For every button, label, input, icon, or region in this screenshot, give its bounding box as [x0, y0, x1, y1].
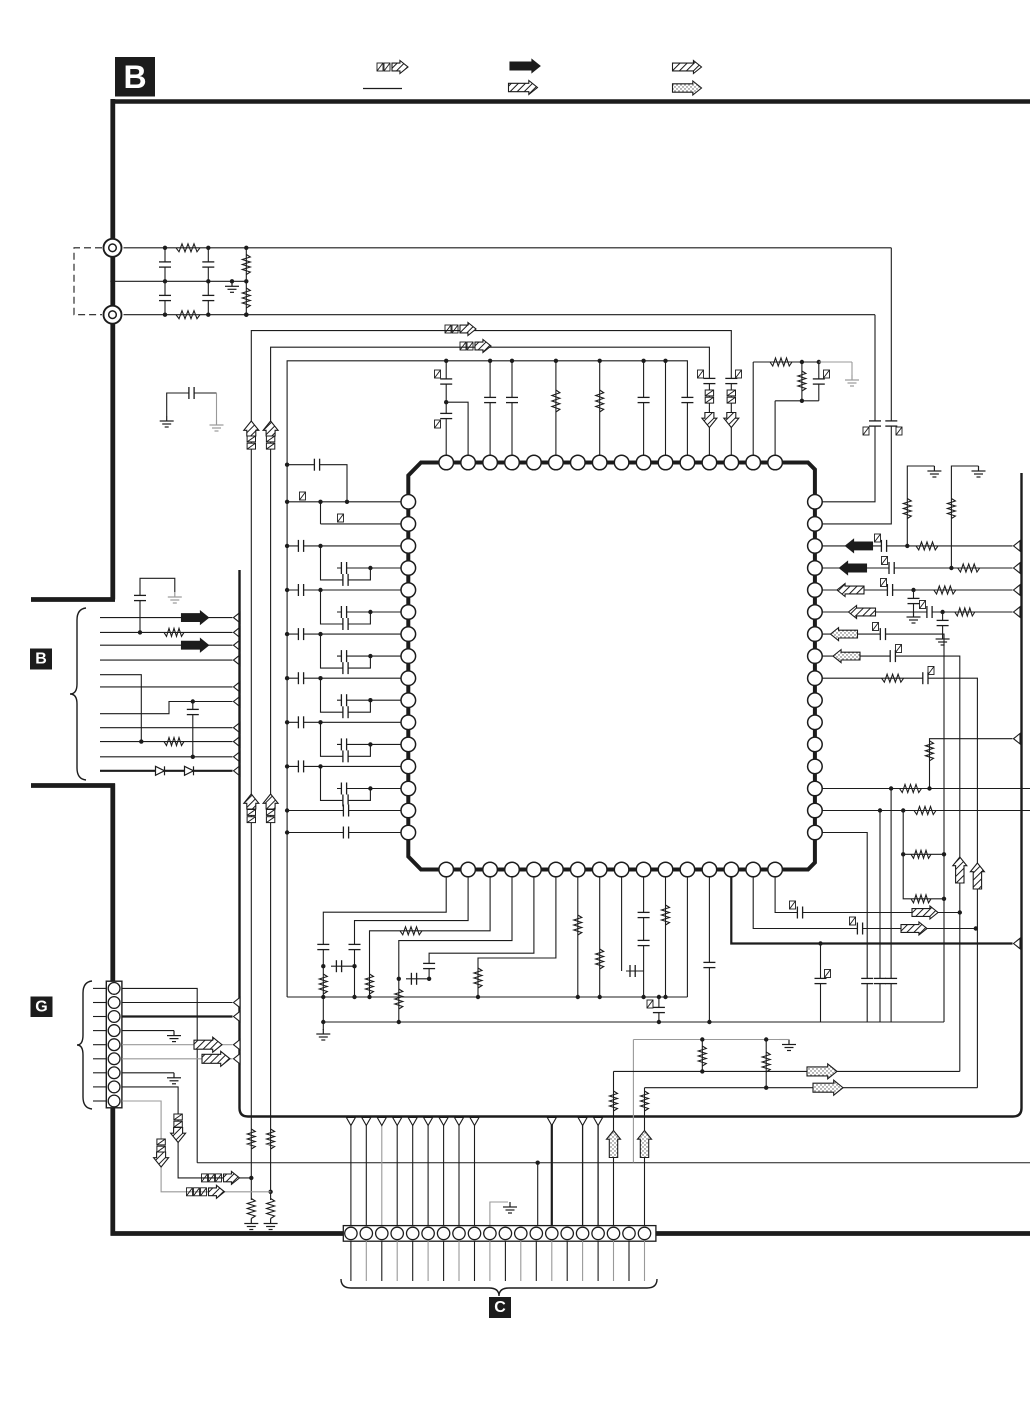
dots signal arrow up: [638, 1131, 652, 1158]
junction J49: [138, 630, 142, 634]
value label: [647, 1000, 653, 1008]
wire cap link b9-b10: [626, 970, 644, 972]
resistor R15: [610, 1091, 618, 1111]
wire cap-ground: [140, 578, 175, 632]
capacitor C64: [857, 923, 862, 935]
IC U1 top pin 10: [636, 455, 651, 470]
capacitor C26: [341, 650, 346, 662]
page border notch upper: [31, 597, 115, 602]
junction J76: [576, 995, 580, 999]
wire G9 gray: [122, 1101, 271, 1192]
capacitor C3: [202, 262, 214, 267]
solid signal arrow left: [846, 539, 873, 552]
connector C pin 9: [468, 1227, 480, 1239]
wire G stub: [93, 1030, 106, 1032]
capacitor C63: [797, 907, 802, 919]
wire right pin14: [822, 788, 1030, 790]
dots signal arrow left: [833, 650, 860, 663]
junction J8: [244, 246, 248, 250]
capacitor C54: [336, 960, 341, 972]
capacitor C9: [506, 397, 518, 402]
wire res drop 2: [765, 1040, 767, 1088]
junction J24: [800, 399, 804, 403]
wire net B: [645, 1087, 978, 1089]
resistor R6: [247, 1199, 255, 1219]
wire connector tail 17: [597, 1241, 599, 1281]
junction J9: [244, 279, 248, 283]
wire resistor link: [245, 248, 247, 315]
bus entry arrowhead: [234, 1011, 241, 1021]
ground: [927, 466, 941, 477]
junction J86: [764, 1037, 768, 1041]
capacitor C33: [298, 760, 303, 772]
hatch signal arrow up: [263, 794, 278, 809]
section label B (left): [30, 649, 52, 670]
junction J40: [368, 698, 372, 702]
capacitor C36: [343, 805, 348, 817]
capacitor C47: [890, 650, 895, 662]
wire bus to connector pin 5: [412, 1118, 414, 1226]
junction J20: [663, 359, 667, 363]
wire bottom pin6 net: [478, 877, 556, 997]
wire input bottom: [124, 314, 876, 316]
bus entry arrowhead: [234, 766, 241, 776]
capacitor C18: [298, 540, 303, 552]
wire bus to connector pin 4: [396, 1118, 398, 1226]
wire to IC top pin: [599, 361, 601, 456]
capacitor C24: [298, 628, 303, 640]
junction J77: [598, 995, 602, 999]
connector C body: [343, 1226, 656, 1242]
bus tap arrowhead: [393, 1118, 402, 1126]
bus entry arrowhead: [1014, 607, 1021, 617]
svg-text:C: C: [494, 1299, 506, 1316]
connector G pin 2: [108, 997, 120, 1009]
junction J18: [598, 359, 602, 363]
wire cap loop: [321, 546, 371, 580]
ground: [782, 1040, 796, 1051]
capacitor C19: [343, 574, 348, 586]
IC U1 top pin 14: [724, 455, 739, 470]
resistor R27: [911, 895, 931, 903]
IC U1 right pin 6: [808, 605, 823, 620]
page border bottom right: [655, 1231, 1030, 1236]
connector jack J2: [104, 306, 122, 324]
IC U1 right pin 9: [808, 671, 823, 686]
IC U1 bottom pin 9: [614, 862, 629, 877]
junction J7: [206, 313, 210, 317]
wire bottom pin15 net: [753, 877, 976, 929]
wire r15 drop: [879, 811, 881, 1023]
value label: [460, 342, 473, 350]
connector G pin 3: [108, 1011, 120, 1023]
diode D2: [185, 766, 194, 775]
junction J56: [911, 588, 915, 592]
wire cap loop: [321, 722, 371, 756]
connector C pin 16: [576, 1227, 588, 1239]
bus tap arrowhead: [362, 1118, 371, 1126]
resistor R17: [916, 542, 938, 550]
resistor R1: [176, 244, 200, 252]
wire resistor drop: [801, 362, 803, 401]
resistor R23: [882, 674, 904, 682]
wire bottom pin7 net: [577, 877, 579, 997]
connector G pin 5: [108, 1039, 120, 1051]
resistor R35: [596, 949, 604, 969]
resistor R33: [474, 968, 482, 988]
bus entry arrowhead: [234, 997, 241, 1007]
capacitor C34: [343, 794, 348, 806]
net label: [705, 390, 713, 403]
junction J45: [318, 764, 322, 768]
junction J69: [352, 964, 356, 968]
value label: [850, 917, 856, 925]
capacitor C40: [881, 540, 886, 552]
wire pin16 up: [774, 401, 776, 456]
wire to left pin 6: [337, 611, 401, 613]
bus entry arrowhead: [234, 640, 241, 650]
bus main loop: [240, 473, 1022, 1117]
junction J72: [397, 977, 401, 981]
bus entry arrowhead: [234, 612, 241, 622]
wire gray to ground: [819, 361, 852, 363]
junction J58: [942, 897, 946, 901]
wire cap loop: [321, 634, 371, 668]
wire G3 bold: [122, 1015, 233, 1017]
IC U1 bottom pin 16: [768, 862, 783, 877]
bus tap arrowhead: [594, 1118, 603, 1126]
wire bottom pin11 net: [665, 877, 667, 997]
wire right pin7 long: [822, 634, 944, 1022]
IC U1 top pin 11: [658, 455, 673, 470]
IC U1 bottom pin 15: [746, 862, 761, 877]
resistor R16: [641, 1091, 649, 1111]
bus tap arrowhead: [377, 1118, 386, 1126]
dots signal arrow right: [807, 1064, 837, 1079]
wire B signal: [100, 631, 233, 633]
connector C pin 2: [360, 1227, 372, 1239]
IC U1 bottom pin 12: [680, 862, 695, 877]
wire bottom pin16 net: [775, 877, 960, 913]
wire topright: [753, 361, 819, 363]
junction J15: [488, 359, 492, 363]
value label: [300, 492, 306, 500]
bus entry arrowhead: [1014, 585, 1021, 595]
bus entry arrowhead: [1014, 541, 1021, 551]
IC U1 left pin 16: [401, 825, 416, 840]
resistor R20: [947, 499, 955, 519]
connector C pin 19: [623, 1227, 635, 1239]
wire to left pin 16: [287, 832, 401, 834]
junction J65: [818, 941, 822, 945]
junction J3: [163, 279, 167, 283]
value label: [873, 623, 879, 631]
IC U1 right pin 3: [808, 539, 823, 554]
junction J33: [318, 588, 322, 592]
wire cap hang: [192, 702, 194, 757]
junction J46: [368, 786, 372, 790]
capacitor C16: [885, 421, 897, 426]
IC U1 right pin 13: [808, 759, 823, 774]
junction J66: [321, 964, 325, 968]
capacitor C20: [341, 562, 346, 574]
wire connector tail 13: [535, 1241, 537, 1281]
wire cap drop collectors: [658, 997, 660, 1022]
wire bold data net: [731, 877, 1012, 944]
resistor R21: [934, 586, 956, 594]
wire branch to pin2: [446, 402, 468, 456]
junction J80: [657, 995, 661, 999]
connector C pin 17: [592, 1227, 604, 1239]
hatch signal arrow down: [154, 1152, 169, 1167]
wire to left pin 15: [287, 810, 401, 812]
diode D1: [156, 766, 165, 775]
wire r5 cap drop: [913, 590, 915, 612]
wire G stub: [93, 1058, 106, 1060]
IC U1 top pin 15: [746, 455, 761, 470]
hatch signal arrow up: [953, 857, 967, 883]
legend underline: [363, 88, 402, 90]
IC U1 top pin 9: [614, 455, 629, 470]
junction J59: [889, 786, 893, 790]
wire bus to connector pin 17: [597, 1118, 599, 1226]
capacitor C7: [703, 378, 715, 383]
capacitor C1: [159, 262, 171, 267]
capacitor C32: [341, 738, 346, 750]
junction J48: [285, 830, 289, 834]
ground: [503, 1202, 517, 1213]
junction J74: [427, 977, 431, 981]
bus entry arrowhead: [234, 1054, 241, 1064]
resistor R25: [926, 741, 934, 761]
junction J34: [368, 610, 372, 614]
section label G: [31, 997, 53, 1018]
wire connector tail 20: [644, 1241, 646, 1281]
wire bold to connector pin 14: [551, 1118, 553, 1226]
junction J62: [901, 808, 905, 812]
wire G8: [122, 1087, 251, 1178]
IC U1 bottom pin 4: [505, 862, 520, 877]
bus entry arrowhead: [234, 655, 241, 665]
wire connector tail 11: [504, 1241, 506, 1281]
junction J21: [444, 400, 448, 404]
IC U1 top pin 7: [571, 455, 586, 470]
wire r4 pullup: [951, 466, 978, 568]
hatch signal arrow up: [263, 421, 278, 436]
resistor R10: [596, 390, 604, 412]
wire r14 drop: [890, 789, 892, 1023]
capacitor C57: [423, 963, 435, 968]
resistor R14: [164, 738, 184, 746]
wire to left pin 10: [337, 699, 401, 701]
page border bottom left: [111, 1231, 345, 1236]
capacitor C22: [343, 618, 348, 630]
wire rail B loop: [271, 347, 710, 1200]
wire to left pin 4: [337, 567, 401, 569]
capacitor C30: [298, 716, 303, 728]
ground: [316, 1029, 330, 1040]
resistor R19: [958, 564, 980, 572]
page border top: [113, 99, 1030, 104]
wire gray lower: [633, 1039, 779, 1041]
hatch signal arrow left: [837, 584, 864, 597]
resistor R2: [176, 311, 200, 319]
capacitor C50: [874, 978, 886, 983]
brace G section: [77, 981, 92, 1109]
wire pin15 up: [752, 362, 754, 456]
input bracket: [74, 248, 102, 315]
IC U1 bottom pin 13: [702, 862, 717, 877]
junction J4: [163, 313, 167, 317]
wire bottom pin2 net: [355, 877, 469, 997]
junction J63: [901, 852, 905, 856]
resistor R29: [319, 974, 327, 994]
wire connector tail 3: [381, 1241, 383, 1281]
value label: [698, 370, 704, 378]
wire to left pin 8: [337, 655, 401, 657]
wire cap link b4-b5: [406, 978, 429, 980]
junction J28: [318, 500, 322, 504]
wire right pin3: [822, 545, 1012, 547]
connector C pin 3: [376, 1227, 388, 1239]
IC U1 right pin 2: [808, 517, 823, 532]
wire rail C loop: [287, 361, 687, 990]
wire bus to connector pin 6: [427, 1118, 429, 1226]
resistor R5: [247, 1129, 255, 1149]
wire G stub: [93, 1002, 106, 1004]
wire right pin9 long: [822, 678, 977, 1087]
connector C pin 11: [499, 1227, 511, 1239]
IC U1 top pin 1: [439, 455, 454, 470]
resistor R24: [900, 785, 922, 793]
IC U1 top pin 2: [461, 455, 476, 470]
junction J64: [942, 852, 946, 856]
wire to left pin 7: [287, 633, 401, 635]
wire bottom pin8 net: [599, 877, 601, 997]
connector G pin 8: [108, 1081, 120, 1093]
wire B signal: [100, 756, 233, 758]
bus entry arrowhead: [234, 696, 241, 706]
capacitor C48: [923, 672, 928, 684]
wire bottom pin3 net: [370, 877, 491, 997]
wire G7: [122, 1072, 174, 1074]
ground: [907, 612, 921, 623]
capacitor C4: [202, 295, 214, 300]
wire connector tail 7: [443, 1241, 445, 1281]
resistor R36: [662, 905, 670, 925]
bus tap arrowhead: [578, 1118, 587, 1126]
junction J26: [345, 500, 349, 504]
IC U1 left pin 7: [401, 627, 416, 642]
capacitor C51: [861, 978, 873, 983]
wire input mid: [113, 280, 247, 282]
junction J75: [476, 995, 480, 999]
small arrow G8: [224, 1171, 240, 1184]
junction J70: [352, 995, 356, 999]
connector G pin 4: [108, 1025, 120, 1037]
small arrow line A: [460, 323, 476, 336]
IC U1 right pin 8: [808, 649, 823, 664]
wire cap loop: [321, 590, 371, 624]
connector C pin 15: [561, 1227, 573, 1239]
capacitor C29: [341, 694, 346, 706]
junction J47: [285, 808, 289, 812]
IC U1 left pin 14: [401, 781, 416, 796]
wire to left pin 9: [287, 677, 401, 679]
wire to left pin 1: [287, 501, 401, 503]
wire connector tail 8: [458, 1241, 460, 1281]
IC U1 right pin 10: [808, 693, 823, 708]
connector jack J1: [104, 239, 122, 257]
junction J54: [905, 544, 909, 548]
legend dotted arrow: [673, 81, 702, 95]
capacitor C12: [440, 379, 452, 384]
wire bus to connector pin 1: [350, 1118, 352, 1226]
resistor R34: [574, 915, 582, 935]
capacitor C44: [927, 606, 932, 618]
wire connector tail 18: [613, 1241, 615, 1281]
wire connector tail 5: [412, 1241, 414, 1281]
junction J39: [318, 676, 322, 680]
ground: [167, 1031, 181, 1042]
junction J13: [268, 1190, 272, 1194]
junction J1: [110, 279, 114, 283]
wire bus to connector pin 8: [458, 1118, 460, 1226]
junction J68: [321, 1020, 325, 1024]
hatch signal arrow up: [244, 421, 259, 436]
junction J14: [444, 359, 448, 363]
connector C pin 13: [530, 1227, 542, 1239]
hatch signal arrow up: [244, 794, 259, 809]
IC U1 bottom pin 6: [549, 862, 564, 877]
value label: [825, 970, 831, 978]
junction J23: [817, 360, 821, 364]
capacitor C28: [343, 706, 348, 718]
wire r14 tap to bus: [930, 739, 1013, 789]
hatch signal arrow down: [724, 413, 739, 428]
IC U1 body: [408, 463, 815, 870]
bus entry arrowhead: [234, 723, 241, 733]
capacitor C41: [889, 562, 894, 574]
capacitor C37: [343, 827, 348, 839]
value label: [824, 370, 830, 378]
wire link p1-p2: [320, 502, 322, 524]
IC U1 right pin 12: [808, 737, 823, 752]
hatch signal arrow right: [901, 922, 927, 935]
section label C: [489, 1297, 511, 1318]
bus tap arrowhead: [346, 1118, 355, 1126]
junction J12: [249, 1176, 253, 1180]
solid signal arrow right: [182, 611, 209, 624]
ground: [264, 1219, 278, 1230]
wire to IC top pin: [643, 361, 645, 456]
net label: [727, 390, 735, 403]
junction J82: [707, 1020, 711, 1024]
value label: [896, 645, 902, 653]
capacitor C46: [880, 628, 885, 640]
resistor R32: [395, 989, 403, 1009]
wire B signal: [100, 659, 233, 661]
resistor R18: [903, 499, 911, 519]
wire right pin5: [822, 589, 1012, 591]
ground: [845, 375, 859, 386]
connector C pin 18: [607, 1227, 619, 1239]
junction J79: [663, 995, 667, 999]
junction J30: [318, 544, 322, 548]
value label: [920, 601, 926, 609]
IC U1 top pin 8: [592, 455, 607, 470]
IC U1 left pin 12: [401, 737, 416, 752]
